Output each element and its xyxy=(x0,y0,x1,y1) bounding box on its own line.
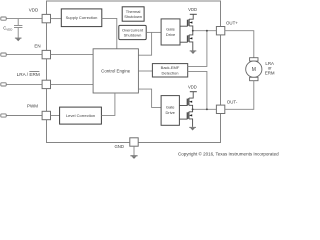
transistor Q2 low-side xyxy=(188,31,193,51)
terminal VDD input xyxy=(1,17,6,20)
wire PWM to Level Correction xyxy=(51,115,60,117)
block Thermal Shutdown xyxy=(122,7,144,21)
ground (bottom bridge) xyxy=(189,127,196,131)
wire EN to Control Engine xyxy=(51,54,94,56)
wire LRA/ERM input xyxy=(6,83,42,85)
ground (top bridge) xyxy=(190,50,197,54)
svg-text:Supply Correction: Supply Correction xyxy=(66,15,98,20)
wire EN input xyxy=(6,54,42,56)
wire Back-EMF to OUT+ net xyxy=(188,31,207,67)
wire gate lead Q1 xyxy=(180,25,188,27)
wire PWM to Level Correction (block) xyxy=(60,107,102,124)
svg-text:Gate: Gate xyxy=(166,27,175,32)
block Overcurrent Shutdown xyxy=(119,25,146,39)
block Gate Drive 2 xyxy=(161,96,179,126)
wire LRA/ERM to Control Engine xyxy=(51,83,94,85)
pin PWM xyxy=(42,111,50,119)
pin LRA/ERM xyxy=(42,80,50,88)
svg-text:Copyright © 2016, Texas Instru: Copyright © 2016, Texas Instruments Inco… xyxy=(178,150,279,156)
svg-text:Shutdown: Shutdown xyxy=(124,33,142,38)
svg-text:VDD: VDD xyxy=(188,84,197,89)
transistor Q3 high-side xyxy=(187,92,193,110)
svg-text:Back-EMF: Back-EMF xyxy=(161,65,180,70)
terminal PWM input xyxy=(1,114,6,117)
svg-text:M: M xyxy=(252,67,256,73)
svg-text:Detection: Detection xyxy=(162,71,179,76)
wire motor to OUT- xyxy=(225,81,254,110)
svg-text:Control Engine: Control Engine xyxy=(101,68,131,73)
wire GND stub xyxy=(133,146,135,155)
svg-text:Overcurrent: Overcurrent xyxy=(122,27,144,32)
wire Control Engine to Gate Drive 1 net xyxy=(138,32,151,55)
wire OUT+ to motor xyxy=(225,31,254,58)
wire gate lead Q2 xyxy=(180,41,188,43)
wire OUT- net xyxy=(193,108,217,110)
capacitor CVDD xyxy=(14,19,22,38)
transistor Q1 high-side xyxy=(188,14,194,30)
wire Back-EMF to OUT- net xyxy=(188,71,207,109)
wire gate lead Q4 xyxy=(179,118,187,120)
svg-text:PWM: PWM xyxy=(27,104,38,109)
ground (CVDD) xyxy=(15,38,22,42)
terminal EN input xyxy=(1,53,6,56)
node junction Q1/Q2 xyxy=(192,30,194,32)
svg-text:Level Correction: Level Correction xyxy=(66,113,95,118)
motor M1 body xyxy=(246,61,262,77)
transistor Q4 low-side xyxy=(187,109,192,127)
wire Control Engine to Gate Drive 2 xyxy=(138,89,161,107)
wire Overcurrent Shutdown to Gate Drive 1 xyxy=(146,31,161,33)
svg-text:VDD: VDD xyxy=(188,7,197,12)
pin VDD xyxy=(42,14,50,22)
pin OUT- xyxy=(216,105,224,113)
svg-text:Drive: Drive xyxy=(166,110,176,115)
chip outline xyxy=(47,1,221,143)
motor M1 terminal top xyxy=(250,58,258,61)
wire gate lead Q3 xyxy=(179,105,187,107)
block Control Engine U1 xyxy=(93,49,138,93)
pin OUT+ xyxy=(216,27,224,35)
block Gate Drive 1 xyxy=(161,19,180,45)
pin EN xyxy=(42,50,50,58)
svg-text:VDD: VDD xyxy=(29,7,39,12)
svg-text:OUT-: OUT- xyxy=(227,100,238,105)
svg-text:Drive: Drive xyxy=(166,32,176,37)
wire OUT+ net xyxy=(193,30,217,32)
svg-text:Thermal: Thermal xyxy=(126,9,141,14)
svg-text:Gate: Gate xyxy=(166,105,175,110)
block Supply Correction xyxy=(61,9,102,27)
block Back-EMF Detection xyxy=(152,64,187,77)
node junction Back-EMF tap top xyxy=(206,30,208,32)
svg-text:GND: GND xyxy=(114,144,124,149)
svg-text:Shutdown: Shutdown xyxy=(124,14,142,19)
ground (GND pin) xyxy=(130,155,137,159)
wire PWM input xyxy=(6,115,42,117)
motor M1 terminal bottom xyxy=(250,77,258,80)
svg-text:LRA / ERM: LRA / ERM xyxy=(17,72,40,77)
node junction Back-EMF tap bottom xyxy=(206,108,208,110)
node junction Q3/Q4 xyxy=(192,108,194,110)
svg-text:OUT+: OUT+ xyxy=(226,20,238,25)
wire Level Correction to Control Engine xyxy=(101,93,115,115)
pin GND xyxy=(130,138,138,146)
svg-text:CVDD: CVDD xyxy=(3,26,12,32)
svg-text:EN: EN xyxy=(34,44,40,49)
svg-text:ERM: ERM xyxy=(265,70,275,75)
terminal LRA/ERM input xyxy=(1,83,6,86)
wire VDD pin to Supply Correction xyxy=(51,18,62,20)
wire Supply Correction to Control Engine xyxy=(102,18,117,48)
wire VDD input xyxy=(6,18,42,20)
wire Control Engine to Back-EMF Detection xyxy=(138,70,152,72)
